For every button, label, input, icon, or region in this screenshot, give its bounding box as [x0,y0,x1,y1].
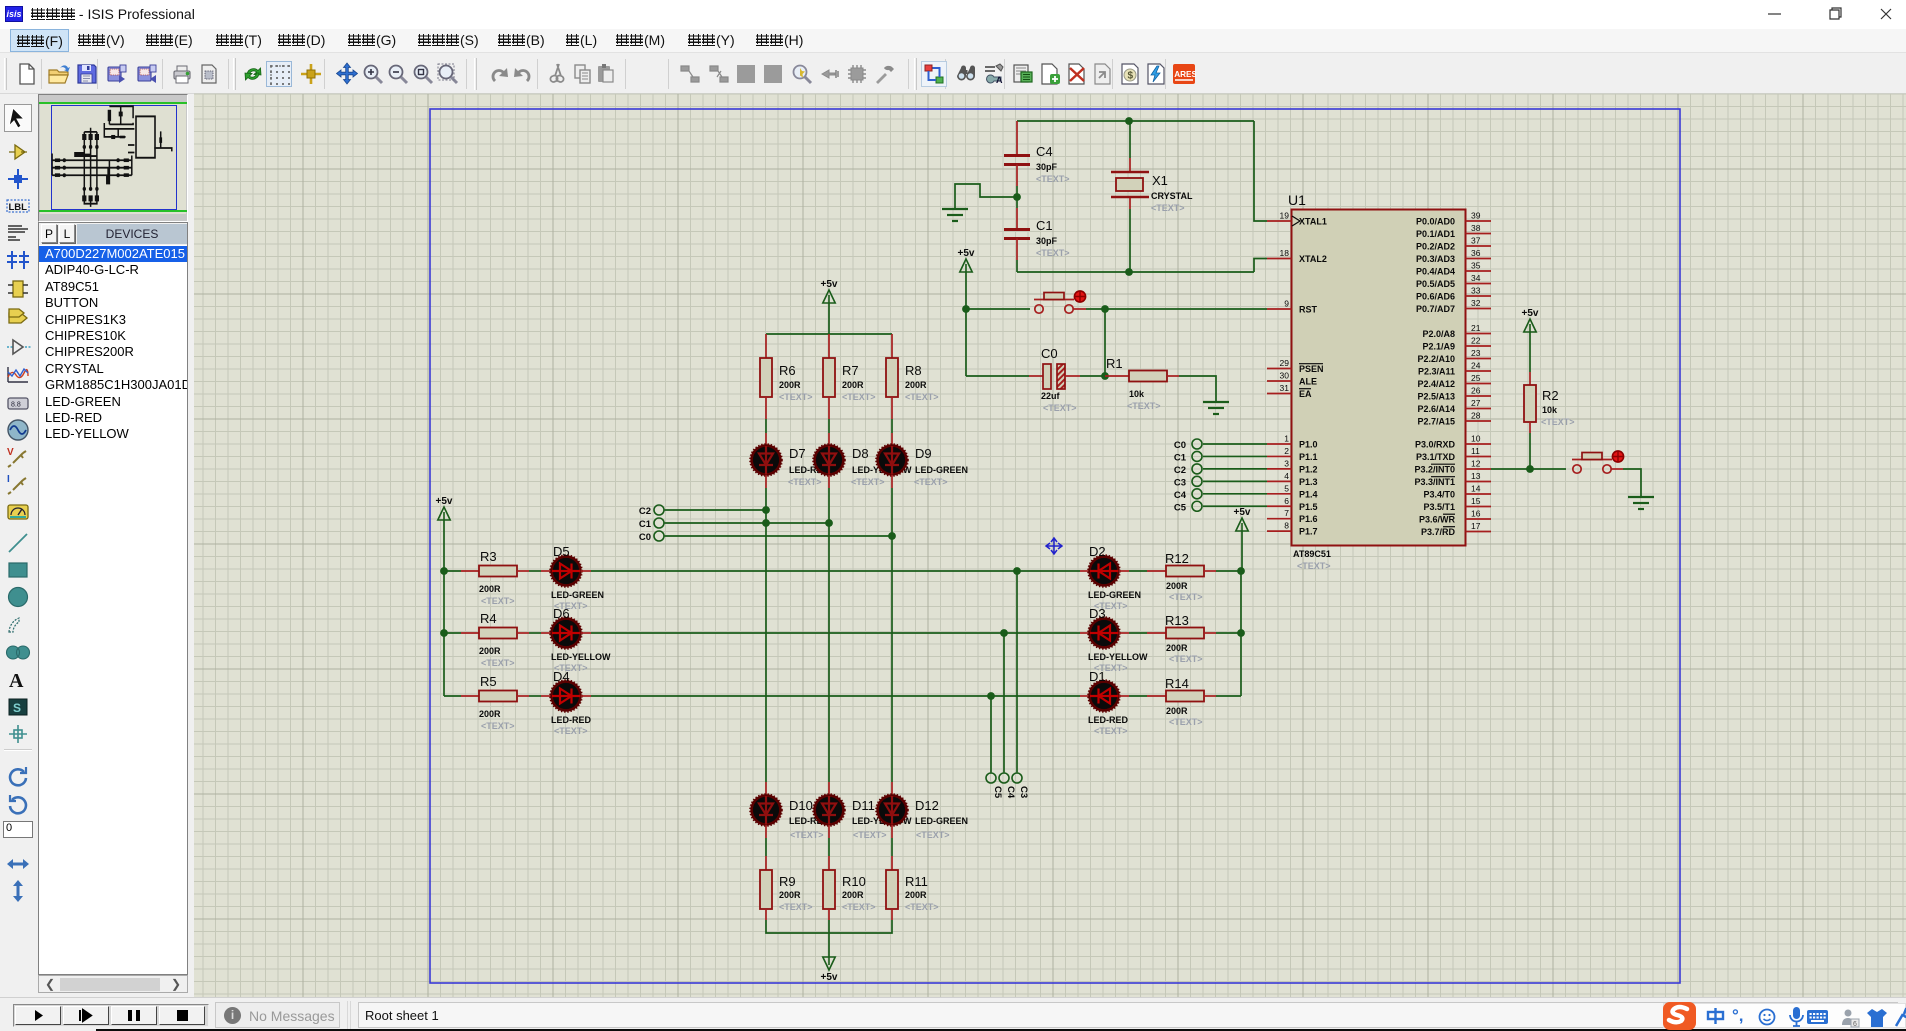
svg-text:LED-RED: LED-RED [1088,715,1128,725]
push button reset button [1035,305,1043,313]
junction crystal bottom [1125,268,1133,276]
svg-text:P2.7/A15: P2.7/A15 [1417,417,1455,427]
svg-text:30pF: 30pF [1036,162,1058,172]
svg-text:<TEXT>: <TEXT> [1169,592,1203,602]
wire row y=633 middle [581,632,591,634]
svg-text:C2: C2 [639,506,651,517]
wire button to RST [1073,308,1086,310]
lead R7 [828,334,830,358]
svg-text:C5: C5 [1174,502,1187,513]
LED D4 (LED-RED) [552,682,581,711]
wire LED column x=892 [891,475,893,488]
leads R12 [1119,570,1129,572]
svg-text:P2.2/A10: P2.2/A10 [1417,354,1455,364]
junction C1 column a [762,519,770,527]
svg-text:LED-GREEN: LED-GREEN [915,465,968,475]
leads D4 [517,695,529,697]
svg-text:D6: D6 [553,606,570,621]
svg-text:1: 1 [1284,434,1289,444]
svg-text:37: 37 [1471,236,1481,246]
svg-text:11: 11 [1471,446,1480,456]
svg-text:LED-YELLOW: LED-YELLOW [551,652,611,662]
svg-text:LED-GREEN: LED-GREEN [1088,590,1141,600]
svg-text:27: 27 [1471,398,1481,408]
svg-text:200R: 200R [479,584,501,594]
junction INT0/R2 [1526,465,1534,473]
lead R10 bottom [828,909,830,920]
lead R8 [891,334,893,358]
wire C2 [665,509,766,511]
svg-text:D12: D12 [915,798,939,813]
LED D2 (LED-GREEN) [1090,557,1119,586]
svg-text:P0.5/AD5: P0.5/AD5 [1416,279,1455,289]
svg-text:9: 9 [1284,299,1289,309]
svg-text:P1.6: P1.6 [1299,514,1318,524]
wire row y=696 left [444,695,461,697]
resistor R6 [760,358,772,397]
svg-text:P1.1: P1.1 [1299,452,1318,462]
svg-text:<TEXT>: <TEXT> [842,392,876,402]
terminal C5 [1192,501,1202,511]
LED D11 (LED-YELLOW) [815,796,844,825]
svg-text:14: 14 [1471,484,1481,494]
wire row y=571 left [444,570,461,572]
svg-text:24: 24 [1471,361,1481,371]
svg-text:C3: C3 [1018,786,1029,798]
svg-text:CRYSTAL: CRYSTAL [1151,191,1193,201]
svg-text:AT89C51: AT89C51 [1293,549,1331,559]
LED D1 (LED-RED) [1090,682,1119,711]
svg-text:LED-GREEN: LED-GREEN [915,816,968,826]
svg-text:D5: D5 [553,544,570,559]
ground (INT0 button) [1628,496,1654,498]
svg-text:21: 21 [1471,323,1481,333]
svg-text:13: 13 [1471,471,1481,481]
svg-text:ALE: ALE [1299,377,1317,387]
svg-text:22: 22 [1471,336,1481,346]
svg-text:38: 38 [1471,223,1481,233]
svg-text:D10: D10 [789,798,813,813]
wire right +5V column [1240,571,1242,696]
junction drop x=991 [987,692,995,700]
wire C1 to P1.1 [1203,455,1267,457]
wire drop x=1004 [1003,633,1005,772]
svg-text:10: 10 [1471,434,1481,444]
push button INT0 button [1573,465,1581,473]
svg-text:P3.4/T0: P3.4/T0 [1423,490,1455,500]
svg-text:2: 2 [1284,446,1289,456]
svg-text:P0.0/AD0: P0.0/AD0 [1416,217,1455,227]
leads R10 [828,825,830,838]
svg-text:R7: R7 [842,363,859,378]
svg-text:P2.1/A9: P2.1/A9 [1422,342,1455,352]
svg-text:R9: R9 [779,874,796,889]
LED D9 (LED-GREEN) [878,446,907,475]
leads R11 [891,825,893,838]
resistor R10 [823,870,835,909]
svg-text:P2.0/A8: P2.0/A8 [1422,329,1455,339]
LED D8 (LED-YELLOW) [815,446,844,475]
svg-text:R11: R11 [905,874,928,889]
svg-text:D1: D1 [1089,669,1106,684]
wire to bottom power [828,920,830,957]
svg-text:7: 7 [1284,508,1289,518]
svg-text:23: 23 [1471,348,1481,358]
svg-text:200R: 200R [842,890,864,900]
lead R8 bottom [891,397,893,419]
svg-text:LED-GREEN: LED-GREEN [551,590,604,600]
wire INT0 row [1491,468,1566,470]
junction R13 right [1237,629,1245,637]
LED D6 (LED-YELLOW) [552,619,581,648]
svg-text:10k: 10k [1129,389,1145,399]
svg-text:3: 3 [1284,458,1289,468]
svg-text:P2.4/A12: P2.4/A12 [1417,379,1455,389]
svg-text:200R: 200R [779,380,801,390]
U1 left pins [1267,220,1292,222]
resistor R3 [479,566,517,577]
svg-text:<TEXT>: <TEXT> [790,830,824,840]
svg-text:<TEXT>: <TEXT> [853,830,887,840]
svg-text:+5v: +5v [1522,308,1539,319]
svg-text:P1.3: P1.3 [1299,477,1318,487]
svg-text:<TEXT>: <TEXT> [1094,726,1128,736]
capacitor C1 [1016,197,1018,208]
junction C2 column [762,506,770,514]
wire XTAL1 top [1017,120,1254,122]
svg-text:<TEXT>: <TEXT> [842,902,876,912]
svg-text:8: 8 [1284,521,1289,531]
svg-text:PSEN: PSEN [1299,364,1324,374]
svg-text:P0.4/AD4: P0.4/AD4 [1416,267,1455,277]
svg-text:P3.1/TXD: P3.1/TXD [1416,452,1456,462]
svg-text:29: 29 [1280,358,1290,368]
resistor R8 [886,358,898,397]
svg-text:P3.0/RXD: P3.0/RXD [1415,440,1456,450]
svg-text:LED-RED: LED-RED [551,715,591,725]
svg-text:P3.5/T1: P3.5/T1 [1423,502,1455,512]
terminal C5 [986,773,996,783]
junction C0 column [888,532,896,540]
wire R1 to ground [1179,376,1216,401]
svg-text:EA: EA [1299,389,1312,399]
svg-text:200R: 200R [905,380,927,390]
svg-text:<TEXT>: <TEXT> [851,477,885,487]
wire +5V column [965,272,967,376]
svg-text:C1: C1 [1174,452,1187,463]
resistor R9 [760,870,772,909]
svg-text:+5v: +5v [958,248,975,259]
svg-text:15: 15 [1471,496,1481,506]
junction RST row [962,305,970,313]
wire row y=571 right [1204,570,1216,572]
svg-text:<TEXT>: <TEXT> [1127,401,1161,411]
wire C5 to P1.5 [1203,505,1267,507]
sheet border [430,109,1680,983]
svg-text:P1.7: P1.7 [1299,527,1318,537]
svg-text:35: 35 [1471,261,1481,271]
ground (R1) [1203,401,1229,403]
svg-text:<TEXT>: <TEXT> [554,726,588,736]
terminal C0 [654,531,664,541]
svg-text:XTAL2: XTAL2 [1299,254,1327,264]
svg-text:P1.0: P1.0 [1299,440,1318,450]
resistor R1 (10k) [1105,375,1129,377]
terminal C1 [654,518,664,528]
svg-text:12: 12 [1471,459,1481,469]
svg-text:200R: 200R [1166,581,1188,591]
svg-text:<TEXT>: <TEXT> [779,902,813,912]
wire from XTAL2 pin [1254,259,1267,273]
svg-text:D11: D11 [852,798,875,813]
lead R7 bottom [828,397,830,419]
svg-text:<TEXT>: <TEXT> [788,477,822,487]
svg-text:D7: D7 [789,446,806,461]
svg-text:P3.6/WR: P3.6/WR [1419,515,1456,525]
svg-text:25: 25 [1471,373,1481,383]
svg-text:200R: 200R [1166,706,1188,716]
LED D5 (LED-GREEN) [552,557,581,586]
svg-text:P0.3/AD3: P0.3/AD3 [1416,254,1455,264]
LED D3 (LED-YELLOW) [1090,619,1119,648]
wire to ground [955,184,1017,208]
wire C2 to P1.2 [1203,468,1267,470]
svg-text:+5v: +5v [821,279,838,290]
svg-text:C0: C0 [1174,440,1186,451]
svg-text:19: 19 [1280,211,1290,221]
svg-text:P0.7/AD7: P0.7/AD7 [1416,304,1455,314]
wire row y=696 middle [581,695,591,697]
terminal C2 [1192,464,1202,474]
svg-text:18: 18 [1280,248,1290,258]
svg-text:R14: R14 [1165,676,1189,691]
svg-text:31: 31 [1280,383,1290,393]
svg-text:5: 5 [1284,483,1289,493]
svg-text:P2.5/A13: P2.5/A13 [1417,392,1455,402]
svg-text:<TEXT>: <TEXT> [1169,717,1203,727]
svg-text:C4: C4 [1174,490,1187,501]
wire +5V stem [828,303,830,334]
svg-text:16: 16 [1471,509,1481,519]
svg-text:28: 28 [1471,411,1481,421]
wire C1 [665,522,829,524]
svg-text:P1.2: P1.2 [1299,464,1318,474]
svg-text:22uf: 22uf [1041,391,1061,401]
svg-text:R5: R5 [480,674,497,689]
crystal X1 [1129,121,1131,158]
svg-text:C1: C1 [639,519,652,530]
svg-text:P0.1/AD1: P0.1/AD1 [1416,229,1455,239]
svg-text:R10: R10 [842,874,866,889]
svg-text:+5v: +5v [436,496,453,507]
svg-text:LED-YELLOW: LED-YELLOW [1088,652,1148,662]
svg-text:<TEXT>: <TEXT> [916,830,950,840]
wire LED bank top rail [766,333,892,335]
capacitor C4 [1016,121,1018,156]
microcontroller U1 AT89C51 [1292,210,1466,546]
wire LED column x=829 [828,475,830,488]
lead R9 bottom [765,909,767,920]
wire row y=633 left [444,632,461,634]
svg-text:200R: 200R [905,890,927,900]
junction drop x=1004 [1000,629,1008,637]
junction row2 left [440,629,448,637]
svg-text:6: 6 [1284,496,1289,506]
lead R6 bottom [765,397,767,419]
junction drop x=1017 [1013,567,1021,575]
svg-text:R2: R2 [1542,388,1559,403]
svg-text:32: 32 [1471,298,1481,308]
terminal C0 [1192,439,1202,449]
wire to button [966,308,1030,310]
svg-text:D8: D8 [852,446,869,461]
svg-text:36: 36 [1471,248,1481,258]
leads D5 [517,570,529,572]
svg-text:<TEXT>: <TEXT> [481,721,515,731]
svg-text:<TEXT>: <TEXT> [1036,248,1070,258]
leads R13 [1119,632,1129,634]
svg-text:200R: 200R [479,646,501,656]
svg-text:<TEXT>: <TEXT> [1043,403,1077,413]
svg-text:<TEXT>: <TEXT> [905,392,939,402]
LED D10 (LED-RED) [752,796,781,825]
svg-text:R12: R12 [1165,551,1189,566]
svg-text:P0.2/AD2: P0.2/AD2 [1416,242,1455,252]
svg-text:P3.2/INT0: P3.2/INT0 [1414,465,1455,475]
wire C0 [665,535,892,537]
svg-text:<TEXT>: <TEXT> [914,477,948,487]
svg-text:C2: C2 [1174,465,1186,476]
svg-text:<TEXT>: <TEXT> [1541,417,1575,427]
svg-text:<TEXT>: <TEXT> [1151,203,1185,213]
svg-text:<TEXT>: <TEXT> [481,658,515,668]
svg-text:R6: R6 [779,363,796,378]
resistor R5 [479,691,517,702]
svg-text:P2.6/A14: P2.6/A14 [1417,404,1455,414]
svg-text:R4: R4 [480,611,497,626]
svg-text:C0: C0 [1041,346,1058,361]
svg-text:17: 17 [1471,521,1481,531]
wire row y=696 right [1204,695,1216,697]
junction RST/R1 [1101,305,1109,313]
svg-text:30: 30 [1280,371,1290,381]
wire RST to R1 [1104,309,1106,376]
wire drop x=1017 [1016,571,1018,772]
svg-text:D4: D4 [553,669,570,684]
svg-text:R3: R3 [480,549,497,564]
svg-text:XTAL1: XTAL1 [1299,217,1327,227]
svg-text:D2: D2 [1089,544,1106,559]
svg-text:<TEXT>: <TEXT> [481,596,515,606]
wire +5V left column [443,520,445,696]
resistor R7 [823,358,835,397]
wire C4 to P1.4 [1203,493,1267,495]
svg-text:C4: C4 [1005,786,1016,799]
svg-text:X1: X1 [1152,173,1168,188]
wire to XTAL1 pin [1254,121,1267,221]
wire XTAL2 bottom [1017,271,1254,273]
leads D6 [517,632,529,634]
svg-text:RST: RST [1299,305,1318,315]
terminal C4 [999,773,1009,783]
svg-text:33: 33 [1471,286,1481,296]
junction C1 column b [825,519,833,527]
wire +5V to R12 [1241,531,1243,571]
svg-text:30pF: 30pF [1036,236,1058,246]
+5V power (bottom) [823,957,835,970]
svg-text:200R: 200R [1166,643,1188,653]
svg-text:C4: C4 [1036,144,1053,159]
terminal C1 [1192,451,1202,461]
resistor R11 [886,870,898,909]
LED D7 (LED-RED) [752,446,781,475]
lead R11 bottom [891,909,893,920]
wire LED column x=766 [765,475,767,488]
svg-text:P3.3/INT1: P3.3/INT1 [1414,477,1455,487]
svg-text:<TEXT>: <TEXT> [1169,654,1203,664]
terminal C3 [1012,773,1022,783]
svg-text:4: 4 [1284,471,1289,481]
svg-text:R13: R13 [1165,613,1189,628]
svg-text:39: 39 [1471,211,1481,221]
junction C4/C1 [1013,193,1021,201]
svg-text:P1.4: P1.4 [1299,489,1318,499]
svg-text:200R: 200R [842,380,864,390]
wire bottom rail [766,920,892,933]
wire button to ground [1611,468,1623,470]
junction row1 left [440,567,448,575]
svg-text:P0.6/AD6: P0.6/AD6 [1416,292,1455,302]
U1 right pins [1466,220,1492,222]
lead R6 [765,334,767,358]
svg-text:C3: C3 [1174,477,1186,488]
junction R12 right [1237,567,1245,575]
svg-text:<TEXT>: <TEXT> [779,392,813,402]
leads R14 [1119,695,1129,697]
svg-text:D3: D3 [1089,606,1106,621]
capacitor C0 (22uf) [966,375,1029,377]
junction R1 left [1101,372,1109,380]
svg-text:C0: C0 [639,532,651,543]
svg-text:200R: 200R [779,890,801,900]
wire row y=571 middle [581,570,591,572]
wire C3 to P1.3 [1203,480,1267,482]
svg-text:34: 34 [1471,273,1481,283]
svg-text:200R: 200R [479,709,501,719]
svg-text:C5: C5 [992,786,1003,799]
svg-text:<TEXT>: <TEXT> [1297,561,1331,571]
wire drop x=991 [990,696,992,772]
resistor R13 [1166,628,1204,639]
svg-text:10k: 10k [1542,405,1558,415]
svg-text:P2.3/A11: P2.3/A11 [1418,367,1455,377]
svg-text:<TEXT>: <TEXT> [1036,174,1070,184]
terminal C2 [654,505,664,515]
svg-text:<TEXT>: <TEXT> [905,902,939,912]
resistor R2 (10k) [1529,332,1531,372]
terminal C4 [1192,489,1202,499]
svg-text:P3.7/RD: P3.7/RD [1421,527,1456,537]
svg-text:C1: C1 [1036,218,1053,233]
svg-text:U1: U1 [1288,192,1306,208]
LED D12 (LED-GREEN) [878,796,907,825]
resistor R14 [1166,691,1204,702]
ground (crystal) [942,208,968,210]
leads R9 [765,825,767,838]
svg-text:+5v: +5v [821,972,838,983]
resistor R4 [479,628,517,639]
junction crystal top [1125,117,1133,125]
